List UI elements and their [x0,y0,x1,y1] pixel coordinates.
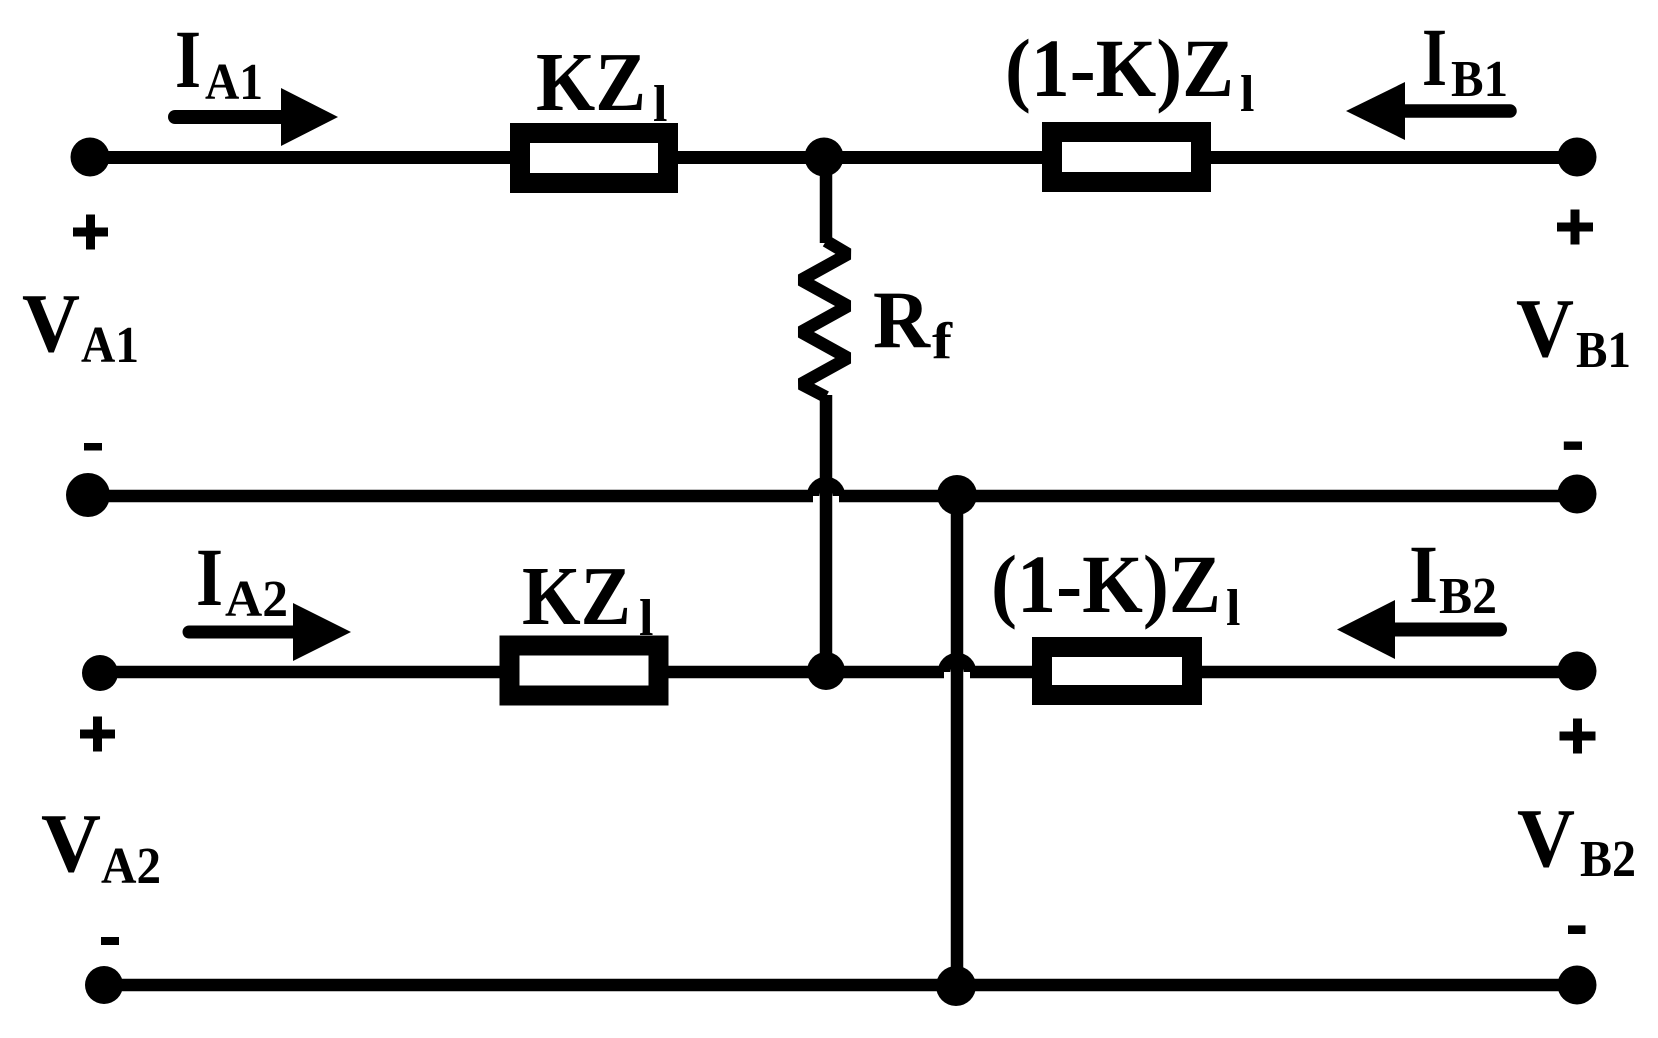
svg-text:l: l [1226,580,1240,637]
label KZl bottom [522,550,653,647]
node VA1- terminal [66,473,110,517]
svg-text:l: l [1240,66,1254,123]
wire return line 2 left segment (VA1- toward fault tap) [88,490,813,503]
node VB1+ terminal [1558,138,1597,177]
label KZl top [536,36,667,133]
label - (VB2) [1568,925,1586,934]
label IA1 [175,13,263,111]
svg-text:B1: B1 [1451,51,1508,108]
svg-text:KZ: KZ [522,550,631,643]
node VA2+ terminal [82,655,118,691]
label Rf [873,274,953,370]
wire neutral riser (line 2 junction down to line 4 junction) [951,495,964,985]
wire hop on line 2 over Rf riser [813,483,839,496]
resistor KZl (bottom, port 2 series left) [510,646,659,696]
wire top line 1 (VA1 to VB1 upper conductor) [90,151,1577,164]
resistor (1-K)Zl (bottom, port 2 series right) [1042,647,1192,695]
svg-text:V: V [1516,282,1574,375]
node junction line 4 / neutral riser [936,966,976,1006]
svg-text:V: V [22,277,80,370]
node VB1- terminal [1558,475,1597,514]
resistor (1-K)Zl (top, port 1 series right) [1052,132,1201,182]
label VA1 [22,277,139,374]
svg-text:(1-K)Z: (1-K)Z [1005,22,1234,114]
svg-text:V: V [1517,792,1575,885]
wire riser from top node into Rf [820,157,833,243]
label - (VA2) [101,937,119,945]
label - (VA1) [84,443,102,451]
label IA2 [196,531,288,628]
svg-text:f: f [932,313,953,370]
label VB1 [1516,282,1631,379]
wire line 3 left segment (VA2+ toward node) [100,666,944,679]
node junction Rf / line 3 [807,652,845,690]
resistor KZl (top, port 1 series left) [520,133,668,183]
wire line 3 right segment (node to VB2+) [970,666,1577,679]
current arrow IB1 [1346,82,1510,140]
wire return line 2 right segment (fault tap to VB1-) [839,490,1577,503]
label VB2 [1517,792,1636,888]
node fault tap junction on line 1 [805,138,844,177]
node VA2- terminal [85,966,123,1004]
node junction line 2 / neutral riser [937,475,977,515]
node VB2- terminal [1558,966,1597,1005]
svg-text:KZ: KZ [536,36,646,129]
svg-text:R: R [873,274,931,365]
resistor Rf (zigzag) [801,241,848,397]
label IB1 [1422,11,1508,108]
svg-text:I: I [175,13,201,105]
wire hop on line 3 over neutral riser [944,659,970,672]
svg-text:I: I [1422,11,1447,103]
wire bottom line 4 (VA2- to VB2-) [104,979,1577,992]
svg-text:A2: A2 [225,571,288,628]
svg-text:B1: B1 [1576,322,1631,379]
svg-text:I: I [1409,528,1438,620]
label IB2 [1409,528,1497,625]
current arrow IA1 [175,88,338,146]
svg-text:A1: A1 [205,54,263,111]
current arrow IB2 [1337,600,1500,659]
node VA1+ terminal [71,138,110,177]
node VB2+ terminal [1558,652,1597,691]
label + (VA1) [73,215,108,250]
svg-text:l: l [639,590,653,647]
label VA2 [41,797,161,895]
label + (VB2) [1560,719,1596,754]
label + (VA2) [80,717,115,752]
label (1-K)Zl top [1005,22,1254,123]
svg-text:B2: B2 [1580,831,1636,888]
current arrow IA2 [189,603,351,661]
label + (VB1) [1557,210,1593,245]
svg-text:I: I [196,531,223,623]
svg-text:V: V [41,797,101,890]
label - (VB1) [1564,442,1582,450]
svg-text:A1: A1 [81,317,139,374]
svg-text:A2: A2 [101,838,161,895]
svg-text:l: l [653,76,667,133]
label (1-K)Zl bottom [991,538,1240,637]
wire from Rf down to line 3 node [820,395,833,671]
svg-text:(1-K)Z: (1-K)Z [991,538,1221,630]
svg-text:B2: B2 [1439,568,1497,625]
